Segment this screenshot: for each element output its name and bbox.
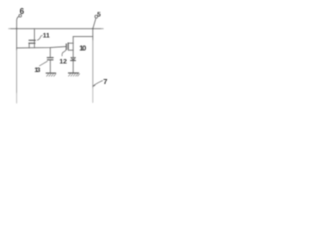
svg-text:7: 7 xyxy=(103,77,107,86)
svg-text:11: 11 xyxy=(43,33,50,40)
svg-text:6: 6 xyxy=(20,7,25,16)
svg-text:10: 10 xyxy=(79,44,86,53)
svg-text:12: 12 xyxy=(59,58,67,65)
svg-text:5: 5 xyxy=(97,12,101,19)
svg-text:13: 13 xyxy=(34,67,40,74)
